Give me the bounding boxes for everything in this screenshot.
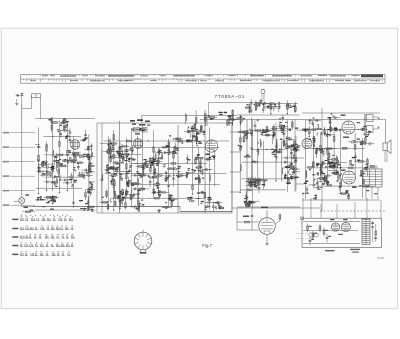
mains dashed boundary bbox=[320, 210, 386, 212]
IF top rail bbox=[142, 115, 237, 123]
tube socket view bbox=[134, 230, 152, 254]
antenna arrow mark bbox=[16, 94, 20, 96]
svg-text:7T085A–01: 7T085A–01 bbox=[215, 94, 246, 99]
trunk vertical V5 bbox=[252, 120, 254, 209]
mains unit internals bbox=[303, 219, 360, 246]
tube B7 top lead bbox=[261, 207, 268, 218]
tube B6 labels bbox=[341, 170, 357, 188]
trunk vertical V9 bbox=[321, 108, 323, 212]
trunk vertical V1 bbox=[119, 121, 121, 213]
loudspeaker LS1 bbox=[383, 140, 391, 162]
antenna feed line bbox=[22, 104, 33, 207]
wire antenna to strip bbox=[22, 96, 41, 119]
mains cord bbox=[296, 233, 318, 239]
trunk vertical V2 bbox=[177, 125, 179, 213]
RF input section wiring bbox=[35, 118, 95, 212]
mains unit feed wires bbox=[303, 198, 381, 218]
trunk vertical V6 bbox=[287, 120, 289, 193]
volume control pot bbox=[286, 166, 299, 184]
trunk vertical V7 bbox=[294, 120, 296, 193]
converter section wiring bbox=[99, 124, 229, 213]
coupling wires A bbox=[230, 132, 240, 192]
output stage parts bbox=[237, 208, 281, 245]
IF label pair bbox=[219, 112, 228, 116]
rectifier tube B9 bbox=[341, 222, 350, 231]
smoothing capacitors bbox=[371, 221, 377, 242]
mains transformer T1 bbox=[362, 219, 370, 245]
tube B3 bbox=[205, 140, 217, 152]
dial scale ruler frame bbox=[21, 75, 386, 84]
detector section wiring bbox=[237, 115, 301, 207]
pickup connector bbox=[14, 194, 29, 203]
bottom bus rail bbox=[33, 123, 232, 212]
left edge connection labels bbox=[3, 132, 36, 206]
figure caption Fig.7 bbox=[202, 243, 212, 248]
IF transformer T3 bbox=[364, 114, 379, 134]
trunk vertical V3 bbox=[204, 110, 206, 213]
terminal strip X1 bbox=[32, 94, 41, 98]
dial scale tick marks bbox=[24, 75, 383, 83]
speaker feed bbox=[378, 120, 386, 144]
mains unit terminal bbox=[301, 217, 304, 220]
rectifier tube B8 bbox=[331, 223, 339, 231]
dial lamp wiring bbox=[209, 99, 281, 115]
dial lamp bbox=[261, 89, 265, 99]
HT rail right bbox=[200, 119, 377, 121]
tube B2 bbox=[133, 139, 143, 149]
AF output section wiring bbox=[302, 113, 380, 200]
dial scale station labels bbox=[30, 74, 383, 81]
chassis box main bbox=[97, 123, 232, 213]
IF top links bbox=[186, 109, 238, 126]
tube B5 bbox=[342, 121, 355, 134]
tube B1 bbox=[70, 140, 80, 150]
wire antenna down bbox=[21, 104, 23, 119]
volume control cluster bbox=[22, 207, 35, 213]
tube B6 bbox=[343, 171, 356, 184]
tube B3 pin cluster bbox=[206, 154, 216, 160]
mains unit captions bbox=[325, 234, 360, 253]
trunk vertical V4 bbox=[246, 120, 248, 209]
sheet number 5006 bbox=[378, 256, 385, 260]
output transformer T2 bbox=[363, 169, 382, 199]
oscillator top row bbox=[245, 99, 298, 115]
coupling wires B bbox=[296, 130, 304, 184]
wave switch contacts bbox=[40, 199, 89, 210]
valve base legend rows bbox=[12, 215, 75, 256]
bottom bus rail right bbox=[232, 207, 320, 209]
earth terminal bbox=[15, 99, 18, 105]
tube B7 output bbox=[259, 218, 276, 235]
tube B4 bbox=[302, 139, 312, 149]
mains unit box bbox=[302, 218, 382, 247]
svg-text:Fig.7: Fig.7 bbox=[202, 243, 212, 248]
trunk vertical V8 bbox=[101, 123, 103, 213]
svg-text:5006: 5006 bbox=[378, 256, 385, 260]
antenna A1 bbox=[20, 93, 23, 104]
tube B5 labels bbox=[341, 115, 361, 138]
title 7T085A-01 bbox=[215, 94, 246, 99]
oscillator coil cluster bbox=[130, 119, 151, 134]
